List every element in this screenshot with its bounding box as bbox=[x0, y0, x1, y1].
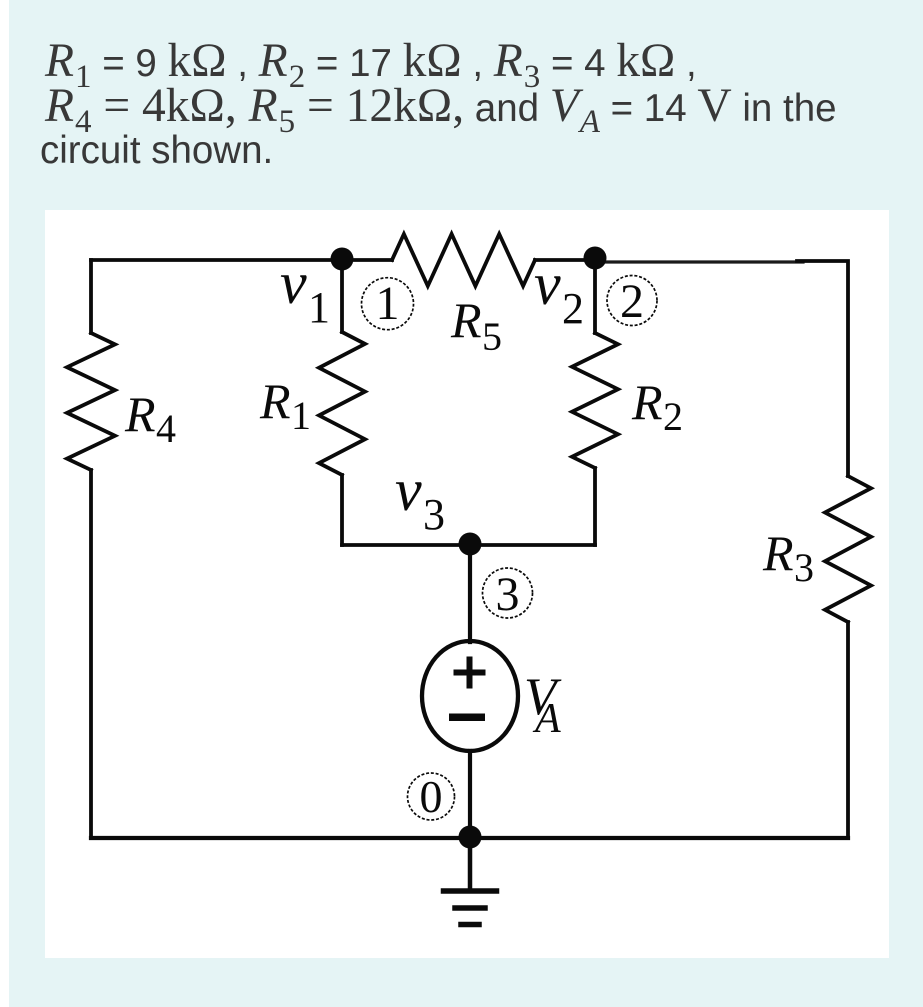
svg-text:2: 2 bbox=[620, 275, 644, 328]
node label circle 2 bbox=[607, 275, 657, 328]
label VA bbox=[524, 668, 562, 742]
wire: bottom rail bbox=[91, 836, 848, 840]
label R4 bbox=[124, 386, 176, 451]
svg-text:3: 3 bbox=[496, 568, 520, 621]
wire: R1 bottom to mid rail bbox=[340, 475, 344, 545]
svg-text:1: 1 bbox=[376, 277, 400, 330]
wire: R2 bottom to mid rail bbox=[593, 468, 597, 545]
label R3 bbox=[762, 525, 814, 590]
svg-text:v: v bbox=[280, 250, 307, 316]
svg-text:1: 1 bbox=[308, 283, 330, 332]
svg-text:R: R bbox=[259, 373, 291, 429]
svg-text:2: 2 bbox=[663, 394, 683, 439]
wire: source to bottom rail bbox=[468, 751, 472, 838]
node 0 junction dot bbox=[459, 826, 482, 849]
resistor R4 bbox=[67, 333, 115, 470]
resistor R3 bbox=[825, 476, 871, 622]
resistor R2 bbox=[572, 333, 618, 468]
svg-text:A: A bbox=[532, 696, 561, 742]
white circuit panel bbox=[45, 210, 889, 958]
svg-text:3: 3 bbox=[423, 490, 445, 539]
question text bbox=[45, 0, 915, 1]
wire: node1 down to R1 bbox=[340, 260, 344, 332]
svg-text:1: 1 bbox=[291, 393, 311, 438]
svg-text:v: v bbox=[395, 457, 422, 523]
svg-text:R: R bbox=[631, 374, 663, 430]
svg-text:4: 4 bbox=[156, 406, 176, 451]
label R5 bbox=[450, 292, 502, 359]
svg-text:R: R bbox=[450, 292, 482, 348]
svg-text:3: 3 bbox=[794, 545, 814, 590]
node 2 junction dot bbox=[584, 247, 607, 270]
ground bbox=[444, 838, 497, 925]
wire: node1 to R5 bbox=[342, 258, 392, 262]
wire: left rail bottom bbox=[89, 470, 93, 838]
label R2 bbox=[631, 374, 683, 439]
svg-text:5: 5 bbox=[482, 314, 502, 359]
node 1 junction dot bbox=[331, 248, 354, 271]
svg-text:R: R bbox=[762, 525, 794, 581]
svg-text:0: 0 bbox=[420, 771, 443, 822]
wire: node2 to top-right (thin) bbox=[597, 260, 803, 263]
plus sign of source bbox=[454, 657, 486, 689]
svg-text:2: 2 bbox=[562, 284, 584, 333]
resistor R1 bbox=[319, 332, 365, 475]
wire: left rail top stub bbox=[89, 260, 93, 333]
label v3 bbox=[395, 457, 445, 539]
wire: R5 to node2 bbox=[535, 258, 595, 262]
node 3 junction dot bbox=[459, 533, 482, 556]
wire: top-right corner bbox=[797, 261, 848, 476]
svg-text:R: R bbox=[124, 386, 156, 442]
wire: R3 bottom to bottom rail bbox=[846, 622, 850, 838]
resistor R5 bbox=[392, 234, 535, 286]
wire: top rail left corner to node 1 bbox=[91, 258, 342, 262]
wire: mid rail bbox=[342, 543, 595, 547]
node label circle 3 bbox=[483, 568, 533, 621]
voltage source VA circle bbox=[422, 641, 518, 751]
label v1 bbox=[280, 250, 330, 332]
minus sign of source bbox=[449, 714, 485, 722]
label v2 bbox=[534, 251, 584, 333]
node label circle 0 bbox=[408, 771, 455, 822]
node label circle 1 bbox=[362, 277, 414, 330]
label R1 bbox=[259, 373, 311, 438]
wire: node3 down to source bbox=[468, 545, 472, 642]
svg-text:v: v bbox=[534, 251, 561, 317]
wire: node2 down to R2 bbox=[593, 260, 597, 333]
